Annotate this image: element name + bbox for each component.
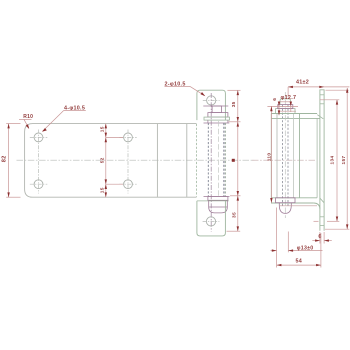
svg-text:52: 52 [99,157,105,163]
dimension 82 [6,124,20,198]
main horizontal centerline [17,159,253,161]
barrel hidden line 2 [223,123,225,197]
top rings [276,109,295,114]
pin hidden lines [282,105,284,207]
svg-text:φ13±0: φ13±0 [297,245,314,251]
hole D bottom-mid [124,180,133,189]
svg-text:110: 110 [266,153,272,162]
bottom washer 2 line [197,200,229,202]
hidden plate edge (dashed) [195,124,197,197]
hole B top-mid [124,133,133,142]
svg-text:R10: R10 [23,114,33,120]
bottom bend chamfer [320,198,324,203]
barrel hidden line 1 [207,123,209,197]
bend line 1 [156,124,158,197]
bottom hole centerline [203,220,220,222]
svg-text:54: 54 [296,258,303,264]
bend line 2 [186,124,188,197]
svg-text:41±2: 41±2 [296,79,309,85]
hole C centerline horizontal [30,183,48,185]
dim 35 top (middle view) [227,90,241,231]
svg-text:φ12.7: φ12.7 [281,95,297,101]
bottom rings / dome [276,198,295,203]
dim 110 [267,105,298,107]
svg-text:15: 15 [99,187,105,193]
barrel centerline [217,121,219,198]
leaf2 top plate [197,90,226,120]
top nut [212,106,221,113]
hole B centerline horizontal [119,136,136,138]
hole A centerline horizontal [30,136,48,138]
hole C bottom-left [34,180,43,189]
bottom washer line [204,196,230,198]
bottom dome line [209,206,228,208]
bottom flange [271,197,317,199]
top hole centerline [203,99,220,101]
top washer 3 sides [207,120,209,123]
svg-text:6: 6 [272,98,278,101]
svg-text:157: 157 [341,156,347,165]
bottom washer [208,197,228,201]
svg-text:35: 35 [231,212,237,218]
svg-text:15: 15 [99,126,105,132]
dim phi1+-0 [271,232,323,253]
barrel hidden line 3 [224,123,226,197]
svg-text:82: 82 [2,156,8,163]
dim 157 [326,89,349,91]
plate hole hidden lines top [320,94,324,96]
pin centerline [284,92,286,218]
top nut line [203,105,228,107]
top washer 3 line [204,122,230,124]
top washer 1 [208,113,228,118]
top flange [271,113,317,115]
bottom hole [206,217,215,226]
flange return edge [316,118,318,197]
dim 54 [277,208,321,268]
centerline tick blob [232,159,235,162]
svg-text:35: 35 [231,101,237,107]
hole column centerline left [38,130,40,194]
top hole [207,96,216,105]
hole D centerline horizontal [119,183,136,185]
svg-text:134: 134 [329,156,335,165]
dim 6 bottom [312,232,332,244]
leaf2 bottom plate [197,201,226,236]
hole column centerline mid [127,130,129,194]
bottom dome [209,201,228,213]
dimension chain 15 / 52 / 15 [106,124,123,198]
barrel cylinder side [270,114,272,198]
dim 134 [320,99,340,101]
hole A top-left [34,133,43,142]
barrel bore lines [276,114,278,198]
leaf plate edge-on (full height) [320,90,324,231]
bottom bend fillet [313,203,320,209]
leaf plate outline [25,124,197,198]
vertical centerline of holes [210,93,212,232]
plate hole hidden lines bottom [320,216,324,218]
top bend chamfer [317,115,323,119]
top washer 2 [204,117,230,120]
